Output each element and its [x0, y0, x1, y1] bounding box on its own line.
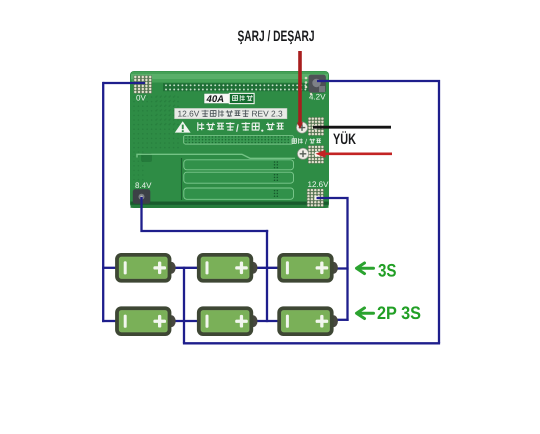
svg-text:40A: 40A: [206, 94, 225, 105]
battery BT2: [199, 255, 258, 281]
warning triangle: [175, 121, 191, 132]
wire: 12.6V pad lead: [317, 198, 348, 321]
battery BT5: [199, 308, 258, 334]
label SARJ/DESARJ: [238, 28, 315, 45]
node 4.2V label: [309, 93, 326, 102]
wire: left 0V rail down: [102, 82, 104, 322]
svg-text:12.6V: 12.6V: [308, 180, 330, 189]
pcb trace line: [137, 154, 295, 158]
wire: BT4+ to BT5- (row2): [174, 320, 199, 322]
PCB board: BMS protection board: [130, 71, 329, 208]
node 0V label: [136, 94, 146, 103]
svg-text:YÜK: YÜK: [333, 131, 356, 148]
perforation hole row (top): [163, 83, 326, 91]
label 2P 3S: [377, 303, 421, 323]
svg-text:4.2V: 4.2V: [309, 93, 326, 102]
balance FET component (4.2V corner): [309, 75, 326, 93]
0V solder pad: [134, 76, 153, 94]
svg-text:12.6V: 12.6V: [178, 109, 200, 119]
battery BT1: [117, 255, 176, 281]
8.4V terminal component: [133, 189, 151, 204]
svg-text:0V: 0V: [136, 94, 146, 103]
charge/discharge pointer (red): [298, 51, 302, 123]
12.6V board title box: [175, 108, 288, 118]
connector slot bar 1: [184, 160, 294, 170]
40A rating label box: [204, 93, 229, 105]
12.6V output pad: [307, 189, 324, 207]
wire: stub to BT4 minus: [102, 320, 117, 322]
label YUK: [333, 131, 356, 148]
wire: bottom rail: [183, 342, 440, 344]
battery BT6: [279, 308, 338, 334]
load wire black: [313, 126, 391, 129]
connector slot bar 3: [184, 188, 294, 199]
balance-charge label box: [229, 93, 254, 103]
load wire red: [322, 153, 392, 156]
svg-text:8.4V: 8.4V: [135, 181, 152, 190]
svg-text:ŞARJ / DEŞARJ: ŞARJ / DEŞARJ: [238, 28, 315, 45]
plus terminal symbol lower: [297, 148, 308, 159]
discharge pad (lower): [308, 145, 324, 163]
battery BT3: [279, 255, 338, 281]
wire: 4.2V lead right and down: [317, 81, 439, 343]
perforation slot strip (middle): [184, 135, 294, 144]
wire: 0V pad to left rail: [103, 82, 145, 84]
arrow 3S: [357, 263, 374, 274]
wire: vertical junction A (cell1/cell2) down to bottom rail: [183, 267, 185, 344]
wire: BT3+ stub to rail C: [337, 267, 349, 269]
warning text: use for motor/drill, no short circuit: [198, 122, 284, 134]
wire: stub to BT1 minus: [102, 267, 117, 269]
charge pad (upper): [308, 117, 324, 135]
battery BT4: [117, 308, 176, 334]
svg-text:2P 3S: 2P 3S: [377, 303, 421, 323]
connector slot bar 2: [184, 172, 294, 183]
arrow 2P 3S: [357, 308, 374, 319]
node 8.4V label: [135, 181, 152, 190]
label 充电/放电: [292, 138, 321, 146]
wire: BT2+ to BT3- (row1): [254, 267, 279, 269]
wire: BT5+ to BT6- (row2): [254, 320, 279, 322]
wire: BT1+ to BT2- (node 4.2V junction row1): [174, 267, 199, 269]
wire: BT6+ stub to rail C: [337, 319, 349, 321]
label 3S: [378, 260, 397, 280]
wire: 8.4V lead from component: [142, 197, 269, 231]
svg-text:REV 2.3: REV 2.3: [252, 109, 284, 119]
svg-text:/: /: [305, 138, 307, 146]
svg-text:/: /: [236, 123, 239, 134]
slot region left edge line: [181, 158, 183, 200]
plus terminal symbol upper: [296, 122, 307, 133]
wire: vertical junction B (cell2/cell3): [266, 230, 268, 322]
svg-text:3S: 3S: [378, 260, 397, 280]
node 12.6V label: [308, 180, 330, 189]
